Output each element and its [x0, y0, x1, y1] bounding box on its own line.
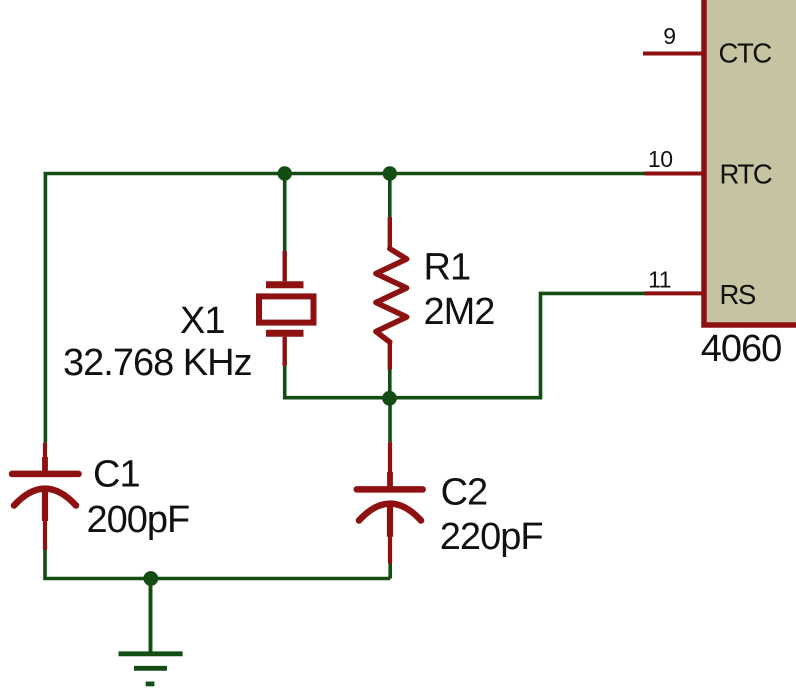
wire: R1 bottom drop	[388, 370, 392, 398]
wire: crystal top drop	[283, 172, 287, 252]
capacitor C2	[357, 442, 423, 563]
wire: mid net from crystal bottom to RS pin riser	[285, 293, 646, 397]
wire: top net from left rail to pin 10 RTC	[45, 174, 646, 443]
svg-text:X1: X1	[180, 300, 224, 342]
wire: ground stub	[149, 579, 153, 654]
svg-text:C2: C2	[441, 472, 488, 514]
ground symbol	[119, 654, 183, 684]
svg-text:RTC: RTC	[720, 159, 772, 190]
svg-text:2M2: 2M2	[424, 291, 495, 333]
svg-text:C1: C1	[93, 453, 140, 495]
svg-text:9: 9	[663, 23, 675, 49]
svg-text:200pF: 200pF	[87, 499, 190, 541]
svg-text:CTC: CTC	[719, 38, 772, 69]
IC pin 9 stub	[643, 52, 703, 56]
resistor R1	[376, 217, 407, 369]
junction node: mid wire / R1-C2	[382, 391, 397, 406]
svg-text:11: 11	[648, 267, 671, 293]
svg-text:32.768 KHz: 32.768 KHz	[63, 342, 252, 384]
wire: crystal bottom drop	[283, 366, 287, 400]
wire: R1 top drop	[388, 172, 392, 218]
wire: C2 top drop	[388, 396, 392, 442]
IC pin 10 stub	[645, 172, 703, 176]
crystal X1	[259, 251, 314, 366]
IC pin 11 stub	[645, 291, 703, 295]
junction node: top wire / crystal	[278, 166, 292, 180]
junction node: top wire / R1	[383, 166, 397, 180]
svg-text:R1: R1	[424, 247, 471, 289]
wire: C2 bottom to ground rail	[388, 564, 392, 579]
IC U1 body (4060)	[704, 0, 796, 325]
svg-text:10: 10	[648, 146, 673, 172]
capacitor C1	[12, 443, 79, 550]
wire: bottom ground rail	[45, 550, 390, 579]
svg-text:RS: RS	[720, 279, 756, 310]
svg-text:4060: 4060	[701, 328, 782, 370]
svg-text:220pF: 220pF	[440, 516, 543, 558]
junction node: bottom rail / ground	[143, 571, 158, 586]
